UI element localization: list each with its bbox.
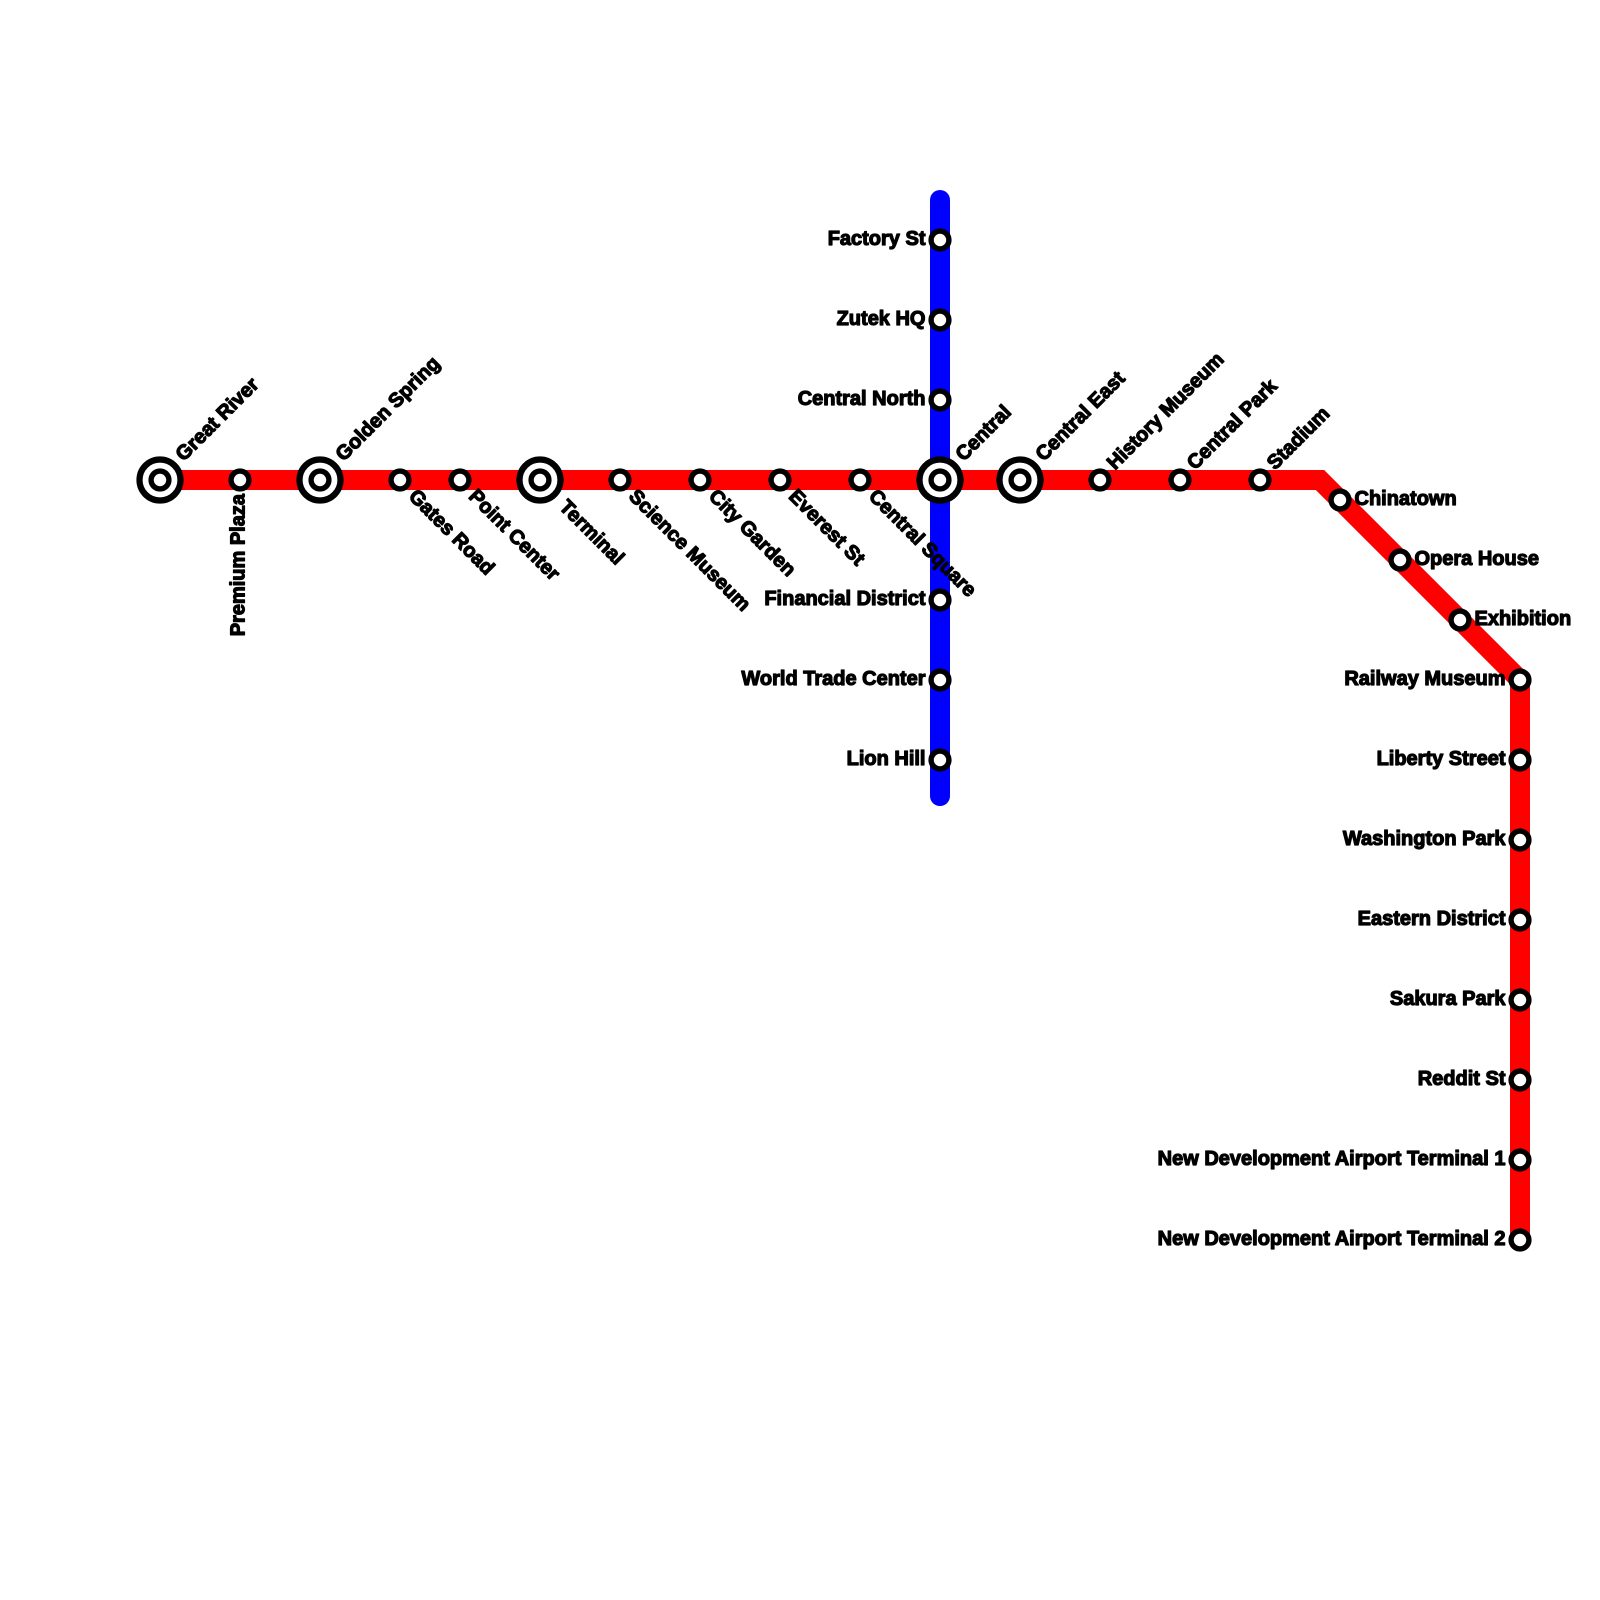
- station New Development Airport Terminal 2: [1511, 1231, 1529, 1249]
- svg-text:New Development Airport Termin: New Development Airport Terminal 1: [1158, 1148, 1506, 1170]
- station Stadium: [1251, 471, 1269, 489]
- svg-text:Zutek HQ: Zutek HQ: [837, 308, 926, 330]
- station Central North: [931, 391, 949, 409]
- station Point Center: [451, 471, 469, 489]
- station Central: [920, 460, 961, 501]
- svg-text:Financial District: Financial District: [764, 588, 925, 610]
- label Central: [952, 401, 1016, 465]
- station Factory St: [931, 231, 949, 249]
- station Everest St: [771, 471, 789, 489]
- svg-text:Premium Plaza: Premium Plaza: [228, 493, 250, 636]
- svg-text:Railway Museum: Railway Museum: [1344, 668, 1505, 690]
- station Golden Spring: [300, 460, 341, 501]
- svg-text:Opera House: Opera House: [1415, 548, 1539, 570]
- svg-text:Eastern District: Eastern District: [1358, 908, 1506, 930]
- station Financial District: [931, 591, 949, 609]
- station Central East: [1000, 460, 1041, 501]
- svg-text:New Development Airport Termin: New Development Airport Terminal 2: [1158, 1228, 1506, 1250]
- label Premium Plaza: [228, 493, 250, 636]
- station Lion Hill: [931, 751, 949, 769]
- label Science Museum: [624, 485, 754, 615]
- station Great River: [140, 460, 181, 501]
- label Central Park: [1183, 375, 1282, 474]
- station History Museum: [1091, 471, 1109, 489]
- label Stadium: [1263, 403, 1334, 474]
- label City Garden: [704, 485, 800, 581]
- label History Museum: [1103, 349, 1229, 475]
- station Exhibition: [1451, 611, 1469, 629]
- station City Garden: [691, 471, 709, 489]
- station Liberty Street: [1511, 751, 1529, 769]
- station Central Square: [851, 471, 869, 489]
- svg-text:Liberty Street: Liberty Street: [1377, 748, 1506, 770]
- station New Development Airport Terminal 1: [1511, 1151, 1529, 1169]
- label Central East: [1032, 367, 1130, 465]
- svg-text:Lion Hill: Lion Hill: [847, 748, 926, 770]
- svg-text:World Trade Center: World Trade Center: [741, 668, 925, 690]
- label Great River: [172, 374, 264, 466]
- station Zutek HQ: [931, 311, 949, 329]
- station Chinatown: [1331, 491, 1349, 509]
- station Reddit St: [1511, 1071, 1529, 1089]
- label Gates Road: [404, 485, 498, 579]
- red line: [160, 480, 1520, 1240]
- station Washington Park: [1511, 831, 1529, 849]
- station Sakura Park: [1511, 991, 1529, 1009]
- label Golden Spring: [332, 352, 445, 465]
- svg-text:Exhibition: Exhibition: [1475, 608, 1572, 630]
- station Central Park: [1171, 471, 1189, 489]
- blue line: [930, 200, 950, 796]
- svg-text:Factory St: Factory St: [828, 228, 926, 250]
- label Everest St: [784, 485, 869, 570]
- svg-text:Central North: Central North: [798, 388, 926, 410]
- label Point Center: [464, 485, 564, 585]
- label Terminal: [555, 496, 628, 569]
- label Central Square: [864, 485, 980, 601]
- station World Trade Center: [931, 671, 949, 689]
- station Eastern District: [1511, 911, 1529, 929]
- station Railway Museum: [1511, 671, 1529, 689]
- svg-text:Sakura Park: Sakura Park: [1390, 988, 1507, 1010]
- svg-text:Reddit St: Reddit St: [1418, 1068, 1506, 1090]
- station Terminal: [520, 460, 561, 501]
- svg-text:Washington Park: Washington Park: [1343, 828, 1506, 850]
- svg-text:Chinatown: Chinatown: [1355, 488, 1457, 510]
- station Science Museum: [611, 471, 629, 489]
- station Gates Road: [391, 471, 409, 489]
- station Premium Plaza: [231, 471, 249, 489]
- station Opera House: [1391, 551, 1409, 569]
